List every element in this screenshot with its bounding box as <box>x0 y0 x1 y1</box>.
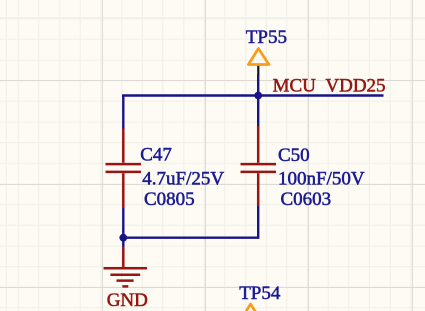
svg-text:C0805: C0805 <box>144 189 195 210</box>
svg-text:4.7uF/25V: 4.7uF/25V <box>142 168 224 189</box>
svg-text:100nF/50V: 100nF/50V <box>278 168 365 189</box>
svg-text:C47: C47 <box>140 144 172 165</box>
svg-text:TP55: TP55 <box>246 27 287 48</box>
svg-text:C0603: C0603 <box>281 189 332 210</box>
svg-text:GND: GND <box>107 290 148 311</box>
svg-text:TP54: TP54 <box>239 283 281 304</box>
svg-text:MCU_VDD25: MCU_VDD25 <box>273 76 386 97</box>
svg-text:C50: C50 <box>278 145 310 166</box>
